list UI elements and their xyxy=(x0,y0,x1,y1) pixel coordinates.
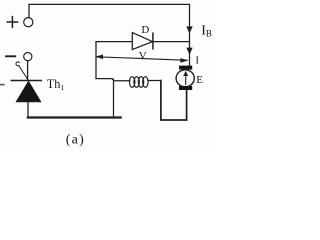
thyristor Th1 cathode bar xyxy=(11,80,41,82)
arrow I (load current, down right vertical) xyxy=(186,48,192,55)
left margin scan mark xyxy=(0,84,3,86)
svg-text:IB: IB xyxy=(201,23,212,38)
inductor coil loop 4 xyxy=(143,77,148,88)
diode D cathode bar xyxy=(152,33,154,49)
wire: left vertical of freewheel branch + run to inductor xyxy=(96,42,130,81)
inductor coil loop 1 xyxy=(130,77,135,88)
inductor coil loop 3 xyxy=(138,77,143,88)
svg-text:I: I xyxy=(195,54,199,66)
battery plus sign xyxy=(7,17,17,28)
inductor coil loop 2 xyxy=(134,77,139,88)
svg-text:Th1: Th1 xyxy=(47,77,65,92)
voltage arrow V (double-headed, across freewheel branch) xyxy=(97,57,187,61)
battery minus sign xyxy=(6,55,15,57)
svg-text:E: E xyxy=(196,74,203,86)
wire: diode branch horizontal xyxy=(96,41,132,43)
wire: stub from inductor line down to bottom rail xyxy=(113,79,115,116)
motor armature circle E xyxy=(176,70,194,87)
wire: inductor right lead xyxy=(148,80,161,82)
svg-text:(a): (a) xyxy=(66,132,85,147)
motor bottom brush bar xyxy=(179,86,192,90)
wire: top rail from + terminal riser to right drop xyxy=(29,4,190,65)
thyristor Th1 triangle (filled, apex up) xyxy=(16,81,41,102)
battery + terminal circle xyxy=(24,18,33,27)
svg-text:V: V xyxy=(139,50,147,62)
battery - terminal circle xyxy=(24,53,32,61)
svg-text:D: D xyxy=(141,24,149,36)
diode D triangle xyxy=(132,33,152,50)
wire: U link inductor to motor bottom xyxy=(161,81,187,120)
wire: thyristor anode lead xyxy=(27,102,29,117)
thyristor gate lead with hook xyxy=(19,66,28,81)
wire: bottom rail (thyristor anode to stub) xyxy=(28,116,121,118)
motor EMF arrow (up, inside circle) xyxy=(185,74,187,85)
arrow IB (battery current, down right vertical) xyxy=(186,26,192,33)
wire: thyristor cathode lead to - terminal xyxy=(27,61,29,80)
motor top brush bar xyxy=(179,66,192,70)
